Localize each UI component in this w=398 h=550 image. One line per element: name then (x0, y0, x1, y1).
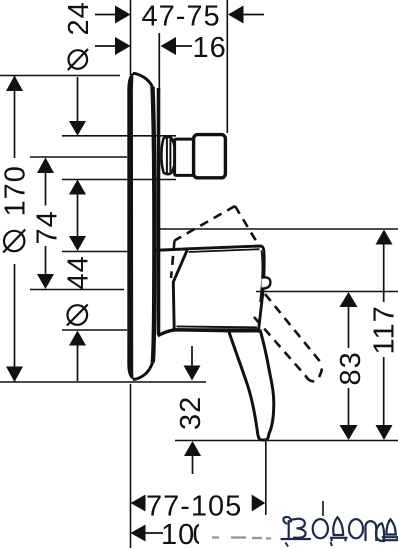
diverter knob inner section (175, 139, 194, 175)
dimension diameter 44 (62, 236, 129, 381)
extension line 16 right (158, 33, 160, 92)
watermark letter A (376, 523, 384, 541)
dimension 77-105 (131, 491, 266, 523)
diverter knob cap (194, 135, 226, 178)
svg-text:74: 74 (32, 210, 64, 244)
extension line 83 top (256, 291, 398, 293)
extension line knob top (62, 135, 176, 137)
dimension 32 (175, 346, 207, 474)
diverter knob neck bulb (161, 137, 175, 174)
svg-text:10: 10 (161, 519, 195, 550)
extension line wall plane bottom (130, 384, 132, 548)
svg-text:24: 24 (63, 1, 95, 35)
sleeve top edge (157, 249, 189, 250)
watermark descender marks (286, 542, 333, 547)
watermark letter O1 (313, 519, 328, 538)
handle raised position dashed (171, 206, 257, 278)
dimension 74 (30, 157, 127, 290)
escutcheon plate left edge (127, 73, 133, 380)
dimension 100 (131, 519, 210, 550)
dimension diameter 170 (0, 76, 206, 383)
extension line bottom of handle (175, 440, 398, 442)
watermark backdrop (199, 516, 398, 550)
extension line handle tip (265, 441, 267, 515)
handle hub body (158, 246, 265, 336)
svg-text:44: 44 (63, 255, 95, 289)
dimension diameter 24 label (63, 1, 95, 70)
dimension 47-75 (95, 0, 264, 32)
escutcheon plate bottom curve (133, 363, 153, 380)
watermark letter O2 (349, 519, 363, 538)
extension line wall plane top (130, 0, 132, 75)
dimension 83 (335, 292, 367, 440)
watermark letter V (282, 517, 311, 539)
extension line 117 top (159, 228, 398, 230)
watermark letter D1 (330, 517, 348, 541)
remnant gray dashes (212, 538, 271, 539)
extension line knob bottom (62, 179, 176, 181)
svg-text:32: 32 (175, 396, 207, 430)
svg-text:16: 16 (193, 32, 227, 64)
svg-text:170: 170 (0, 165, 32, 216)
dimension diameter 24 arrows (69, 77, 86, 237)
watermark letter D2 (383, 519, 398, 540)
handle lever solid (229, 331, 274, 440)
svg-text:117: 117 (369, 305, 398, 354)
escutcheon plate front face (153, 87, 155, 363)
dimension 117 (369, 230, 398, 441)
dimension 16 (95, 32, 227, 64)
watermark letter P (366, 521, 377, 541)
extension line 100 right stub (322, 501, 324, 517)
escutcheon plate top curve (133, 73, 152, 86)
handle pivot notch (262, 277, 271, 288)
extension line 47-75 right (226, 0, 228, 133)
svg-text:83: 83 (335, 351, 367, 385)
svg-text:47-75: 47-75 (142, 0, 221, 32)
escutcheon plate front rim line (157, 88, 161, 334)
handle outward position dashed (254, 294, 323, 381)
